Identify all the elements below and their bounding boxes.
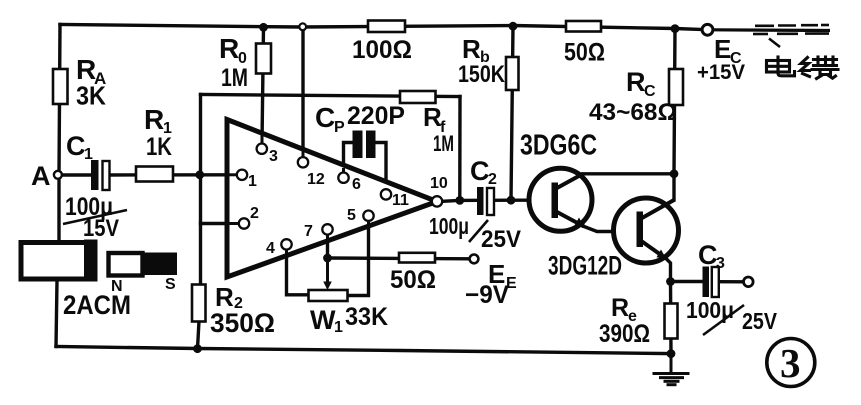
wire left vertical from top bus to node A [59,25,60,176]
resistor Re body [665,304,678,339]
junction Rc top [671,24,680,33]
potentiometer W1 body [309,290,348,301]
wire Q1 emitter to Q2 base [584,227,635,232]
svg-text:−9V: −9V [465,281,509,309]
wire pin 12 lead inside triangle [302,137,305,157]
wire R2 bottom lead [198,321,200,349]
svg-text:43~68Ω: 43~68Ω [589,99,677,126]
svg-text:50Ω: 50Ω [564,39,605,67]
svg-text:1: 1 [334,319,343,336]
wiper arrow of W1 [323,258,332,290]
svg-text:12: 12 [307,171,325,188]
label Rc [589,67,677,126]
pin 7 circle [322,224,332,234]
transistor Q2 3DG12D [614,198,679,263]
pin 2 circle [239,218,249,228]
svg-text:R: R [144,104,164,135]
figure number 3 [767,339,815,387]
svg-text:R: R [611,294,629,322]
svg-text:3: 3 [780,340,801,386]
svg-text:1: 1 [248,173,257,190]
label R1 [144,104,172,161]
label 100u/25V of C3 [686,297,778,335]
wire Rb branch from top bus to base node [511,26,513,200]
pin 11 circle [381,189,391,199]
svg-text:C: C [315,102,335,133]
label RA [76,54,106,111]
svg-text:C: C [698,240,718,270]
junction R0 top [259,23,268,32]
junction Q1 base node [507,196,516,205]
wire 2ACM to bottom bus [56,281,57,347]
svg-text:1: 1 [84,146,93,163]
pin 4 circle [281,239,291,249]
wire Rc branch from top bus down to collector node [674,29,675,174]
label 100u/15V of C1 [63,193,127,242]
resistor RA body [53,69,68,104]
svg-text:P: P [334,119,345,136]
wire wiper node right through 50ohm to EE terminal [328,256,470,260]
wire emitter node to C3 [671,280,704,283]
resistor Rc body [669,69,683,105]
wire C2 to base node of Q1 [495,198,512,202]
component 2ACM body [21,240,98,282]
wire collector node down to Q2 collector [672,174,675,200]
svg-text:C: C [470,156,490,186]
label 100u/25V of C2 [429,213,521,253]
pin 6 circle [338,173,348,183]
junction input node [195,170,204,179]
svg-text:100μ: 100μ [429,213,469,239]
junction collector node [670,169,679,178]
resistor Rb body [506,57,519,90]
wire top supply bus [60,25,702,30]
label R2 [210,282,275,338]
terminal EE [470,255,479,264]
svg-text:R: R [462,34,481,64]
wire bottom ground bus [56,347,671,354]
label EE [465,259,517,309]
resistor R2 body [192,285,206,322]
wire pin 5 down to W1 right end [348,221,369,296]
svg-text:A: A [31,161,51,191]
wire R0 branch: top bus through R0 down to pin 3 [262,27,264,143]
label Re [599,294,650,348]
svg-text:350Ω: 350Ω [210,308,275,338]
label C1 [66,131,93,163]
wire pin 6 lead inside triangle [342,168,345,173]
capacitor C1 [91,160,110,190]
junction wiper node [323,254,332,263]
svg-text:3DG12D: 3DG12D [548,251,622,281]
terminal A [54,171,62,179]
svg-text:3: 3 [716,255,725,272]
svg-text:220P: 220P [347,102,405,130]
wire feedback top through Rf [201,95,461,97]
svg-text:150K: 150K [458,61,506,88]
junction emitter node [666,277,675,286]
svg-text:2: 2 [488,171,497,188]
wire pin 1 lead inside triangle [226,173,237,176]
pin number labels [248,148,448,257]
svg-text:4: 4 [266,240,275,257]
wire node A down to 2ACM [57,175,60,242]
svg-text:E: E [714,34,731,64]
label Rb [458,34,506,88]
wire pin 4 down to W1 left end [287,250,309,295]
transistor Q1 3DG6C [529,168,592,231]
svg-text:S: S [165,276,176,293]
junction R2 bottom [193,344,202,353]
resistor 50ohm body (top) [566,21,601,32]
terminal C3 output [744,277,754,287]
wire output junction to C2 [460,199,477,202]
svg-text:3K: 3K [76,81,106,111]
label R0 [219,33,248,92]
capacitor Cp [353,131,376,159]
wire pin 7 down to wiper node [326,235,329,258]
svg-text:3: 3 [269,148,278,165]
junction ground node [667,349,676,358]
svg-text:390Ω: 390Ω [599,320,650,348]
svg-text:25V: 25V [742,308,778,334]
svg-text:3DG6C: 3DG6C [520,130,597,162]
label Ec [697,34,745,84]
svg-text:10: 10 [430,175,448,192]
pin 3 circle [257,144,267,154]
pin 10 circle [432,196,442,206]
cable symbol (dashed lines) [713,25,831,47]
svg-text:50Ω: 50Ω [390,266,436,294]
wire feedback right vertical down to output [458,97,462,201]
svg-text:+15V: +15V [697,61,745,84]
junction Rb top [509,22,518,31]
label C3 [698,240,725,272]
svg-text:R: R [219,33,239,64]
wire input node A to C1 [62,173,92,176]
ground [653,354,690,385]
wire pin 7 lead inside triangle [326,235,329,242]
svg-text:N: N [111,278,123,295]
svg-text:1M: 1M [221,64,248,92]
svg-text:W: W [310,305,336,335]
resistor R1 body [136,167,173,182]
svg-text:C: C [66,131,86,161]
wire C3 to output terminal [719,280,744,283]
capacitor C3 [703,267,719,298]
wire pin 2 lead inside triangle [226,222,239,225]
junction output node [455,196,464,205]
resistor 50ohm body (EE lead) [399,253,435,263]
op-amp U1 triangle [227,120,437,278]
label C2 [470,156,497,188]
pin 5 circle [363,211,373,221]
pin 12 circle [298,157,308,167]
svg-text:15V: 15V [83,215,119,242]
pin 1 circle [237,170,247,180]
terminal Ec [702,24,713,35]
svg-text:1K: 1K [146,133,172,161]
wire pin 10 output to junction [442,199,460,203]
svg-text:1M: 1M [433,131,454,156]
wire pin 6 up to Cp bracket [344,143,353,173]
resistor 100ohm body (top) [368,21,405,33]
wire pin 5 lead inside triangle [367,221,370,227]
wire base node to Q1 base [511,198,553,201]
resistor Rf body [400,91,436,103]
resistor R0 body [256,44,271,74]
terminal pin12 top bus [299,23,306,30]
svg-text:100Ω: 100Ω [352,36,412,64]
wire feedback vertical at x=200 from Rf line down through junction to R2 [199,95,202,288]
wire pin 12 vertical to top bus [301,30,304,157]
svg-text:5: 5 [347,207,356,224]
label W1 33K [310,303,388,336]
label Rf [423,102,454,156]
svg-text:33K: 33K [345,303,388,331]
svg-text:R: R [626,67,646,97]
svg-text:2: 2 [250,205,259,222]
svg-text:7: 7 [304,223,313,240]
svg-text:6: 6 [352,176,361,193]
wire Q2 emitter down to emitter node [666,259,671,282]
svg-text:11: 11 [392,192,409,209]
wire C1 to R1 to junction to pin 1 [109,173,237,177]
label cable (Chinese 电缆) [767,57,839,79]
magnet N-S [109,253,178,276]
wire emitter node through Re to ground node [669,282,673,354]
wire Q1 collector to collector node [583,172,675,175]
wire pin 2 horizontal [201,222,240,225]
label Cp [315,102,405,136]
wire pin 3 lead inside triangle [261,123,264,144]
svg-text:C: C [644,83,656,100]
capacitor C2 [477,187,494,215]
wire Cp right bracket down to pin 11 [376,143,386,190]
wire pin 4 lead inside triangle [285,250,288,256]
svg-text:25V: 25V [481,226,521,253]
